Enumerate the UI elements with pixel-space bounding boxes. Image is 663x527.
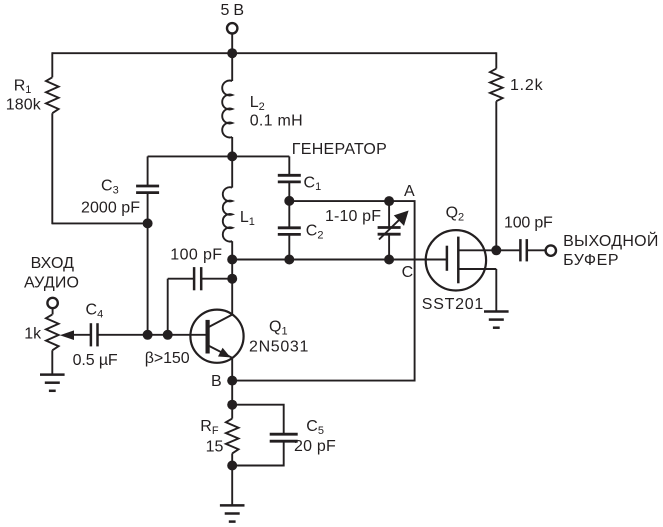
svg-text:1-10 pF: 1-10 pF: [325, 208, 381, 225]
capacitor C4: [66, 323, 98, 346]
ground (RF/C5): [220, 505, 245, 521]
resistor RF: [226, 405, 239, 466]
power terminal 5V: [227, 23, 237, 33]
svg-text:ГЕНЕРАТОР: ГЕНЕРАТОР: [292, 141, 387, 158]
transistor Q1: [190, 310, 243, 381]
wire: generator top rail: [148, 155, 290, 157]
svg-text:1k: 1k: [24, 326, 42, 343]
variable capacitor 1-10 pF: [378, 201, 409, 259]
resistor R1: [46, 52, 59, 224]
node: feedback cap / collector junction: [227, 274, 237, 284]
node: top rail / 5V junction: [227, 48, 237, 58]
svg-text:2000 pF: 2000 pF: [81, 200, 140, 217]
node B: [227, 376, 237, 386]
svg-text:L1: L1: [240, 209, 255, 228]
svg-text:C4: C4: [86, 302, 104, 321]
svg-text:0.5 µF: 0.5 µF: [73, 352, 118, 369]
wire: B down to RF node: [231, 381, 233, 405]
node: C3 bottom / R1 junction: [143, 218, 153, 228]
svg-text:1.2k: 1.2k: [510, 77, 544, 94]
wire: node A rail: [232, 201, 414, 381]
wire: top rail: [52, 52, 496, 54]
node: drain / 1.2k junction: [491, 245, 501, 255]
svg-text:0.1 mH: 0.1 mH: [250, 113, 303, 130]
node: RF/C5 bottom junction: [227, 461, 237, 471]
capacitor 100 pF (feedback): [168, 267, 233, 335]
ground (potentiometer): [40, 375, 65, 391]
svg-text:5 В: 5 В: [221, 2, 245, 19]
wire: collector branch down from bottom rail: [231, 260, 233, 315]
wire: RF bottom to ground: [231, 466, 233, 506]
svg-text:Q2: Q2: [446, 205, 465, 224]
node: varcap top junction: [384, 196, 394, 206]
ground (Q2 source): [484, 312, 509, 328]
node: C1/C2 junction: [284, 196, 294, 206]
node: RF/C5 top junction: [227, 400, 237, 410]
inductor L2: [222, 53, 232, 156]
output terminal: [546, 245, 556, 255]
svg-text:C: C: [402, 264, 414, 281]
node: L1 bottom junction: [227, 255, 237, 265]
input terminal ВХОД АУДИО: [47, 298, 57, 308]
svg-text:АУДИО: АУДИО: [24, 275, 79, 292]
wire: R1 bottom to C3 junction: [52, 222, 147, 224]
potentiometer 1k: [46, 308, 59, 374]
svg-text:C5: C5: [306, 418, 324, 437]
node: base line / C3 branch junction: [143, 330, 153, 340]
wire: generator bottom rail to Q2 gate: [232, 259, 447, 261]
node: C2 bottom junction: [284, 255, 294, 265]
svg-text:β>150: β>150: [145, 350, 190, 367]
wiper arrow of potentiometer: [60, 330, 74, 340]
capacitor C2: [278, 201, 301, 260]
transistor Q2: [426, 230, 497, 311]
resistor 1.2k: [490, 52, 503, 250]
capacitor 100 pF (output): [496, 239, 545, 261]
inductor L1: [223, 156, 232, 259]
svg-text:БУФЕР: БУФЕР: [563, 252, 618, 269]
svg-text:ВЫХОДНОЙ: ВЫХОДНОЙ: [563, 231, 658, 250]
wire: 5V terminal to top rail: [231, 34, 233, 54]
svg-text:A: A: [404, 183, 415, 200]
svg-text:C1: C1: [304, 174, 322, 193]
capacitor C5: [232, 405, 298, 466]
node: varcap bottom junction: [384, 255, 394, 265]
wire: base line: [98, 334, 206, 336]
svg-text:C3: C3: [101, 178, 119, 197]
node: L2 bottom junction: [227, 151, 237, 161]
svg-text:SST201: SST201: [422, 296, 484, 313]
capacitor C1: [278, 156, 301, 201]
wire: C3 junction down to base line: [147, 223, 149, 334]
node: base line / feedback cap junction: [163, 330, 173, 340]
svg-text:ВХОД: ВХОД: [31, 255, 75, 272]
svg-text:C2: C2: [306, 223, 324, 242]
svg-text:20 pF: 20 pF: [294, 438, 336, 455]
svg-text:RF: RF: [200, 418, 219, 437]
svg-text:Q1: Q1: [269, 319, 288, 338]
svg-text:100 pF: 100 pF: [170, 246, 222, 263]
svg-text:180k: 180k: [6, 96, 42, 113]
svg-text:B: B: [211, 373, 222, 390]
capacitor C3: [136, 156, 159, 223]
svg-text:2N5031: 2N5031: [249, 339, 308, 356]
svg-text:R1: R1: [14, 77, 32, 96]
svg-text:L2: L2: [250, 94, 265, 113]
svg-text:100 pF: 100 pF: [504, 214, 553, 231]
svg-text:15: 15: [206, 439, 224, 456]
